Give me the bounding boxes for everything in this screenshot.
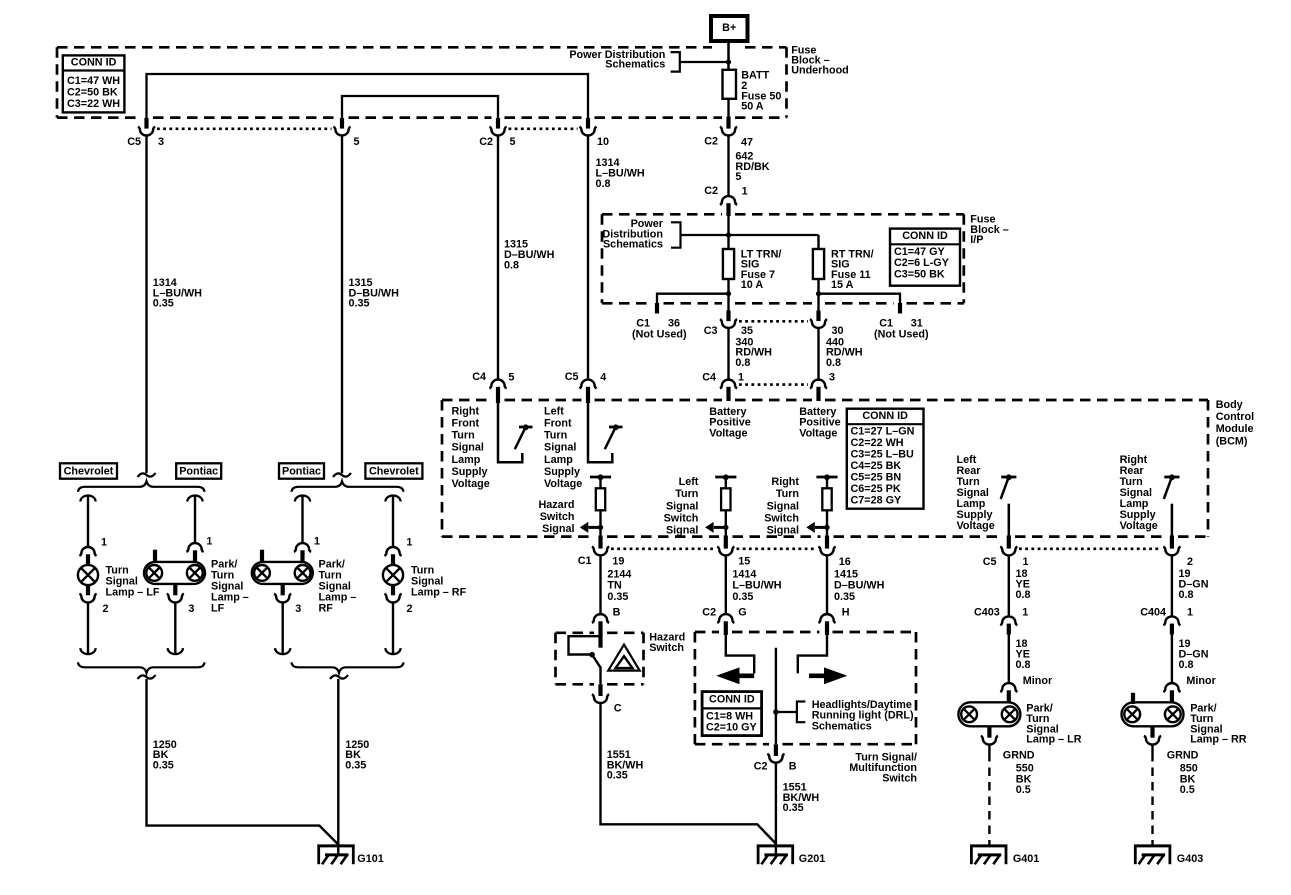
svg-text:C2: C2 xyxy=(704,136,718,148)
ground G201 xyxy=(757,845,794,864)
ground G101 xyxy=(317,845,354,864)
connector C3 pin 35 xyxy=(720,311,737,328)
svg-text:Lamp – RF: Lamp – RF xyxy=(411,586,467,598)
svg-text:C2: C2 xyxy=(702,607,716,619)
svg-text:0.35: 0.35 xyxy=(345,759,366,771)
wire 18 YE 0.8 (upper) xyxy=(1008,555,1010,617)
svg-text:C6=25 PK: C6=25 PK xyxy=(851,483,901,495)
wire 19 D-GN 0.8 (upper) xyxy=(1171,555,1173,617)
dotted connector line C5-1 to 2 xyxy=(1019,547,1162,550)
svg-text:C1=27 L–GN: C1=27 L–GN xyxy=(851,426,915,438)
svg-text:D–BU/WH: D–BU/WH xyxy=(834,580,885,592)
connector C2-B turn signal switch xyxy=(767,744,784,763)
svg-text:0.35: 0.35 xyxy=(607,770,628,782)
svg-text:31: 31 xyxy=(911,317,923,329)
svg-text:30: 30 xyxy=(832,325,844,337)
connector park/turn LR xyxy=(1000,683,1017,702)
svg-text:1: 1 xyxy=(1023,556,1029,568)
connector pin 2 turn lamp LF xyxy=(79,585,96,602)
svg-text:C2: C2 xyxy=(754,760,768,772)
connector pin 5 (underhood) xyxy=(333,118,350,135)
svg-text:LF: LF xyxy=(211,603,225,615)
park/turn signal lamp LR (dual bulb) xyxy=(958,702,1020,726)
svg-text:Signal: Signal xyxy=(767,500,799,512)
svg-text:Lamp – LF: Lamp – LF xyxy=(106,586,160,598)
branch hook park/turn lamp RF xyxy=(295,496,310,543)
svg-text:10 A: 10 A xyxy=(741,279,764,291)
park/turn signal lamp RR (dual bulb) xyxy=(1122,702,1184,726)
svg-text:Body: Body xyxy=(1216,399,1243,411)
connector C5 pin 1 (BCM bottom) xyxy=(1000,536,1017,556)
wire+end hook RF turn xyxy=(385,602,400,654)
svg-text:(Not Used): (Not Used) xyxy=(632,329,687,341)
svg-text:RF: RF xyxy=(319,603,334,615)
svg-text:0.8: 0.8 xyxy=(596,178,611,190)
svg-text:Underhood: Underhood xyxy=(791,64,849,76)
svg-text:CONN ID: CONN ID xyxy=(71,57,117,69)
svg-text:Pontiac: Pontiac xyxy=(179,466,218,478)
brace distribute RF xyxy=(292,481,404,492)
svg-text:Voltage: Voltage xyxy=(452,478,490,490)
wire to not-used C1-31 xyxy=(819,294,901,305)
svg-text:Pontiac: Pontiac xyxy=(282,466,321,478)
svg-text:15 A: 15 A xyxy=(831,279,854,291)
svg-text:1: 1 xyxy=(1022,607,1028,619)
svg-text:1415: 1415 xyxy=(834,568,858,580)
svg-text:C5=25 BN: C5=25 BN xyxy=(851,472,902,484)
svg-text:4: 4 xyxy=(600,372,606,384)
svg-text:16: 16 xyxy=(839,556,851,568)
connector pin 10 (underhood) xyxy=(579,118,596,136)
wire 1551 BK/WH 0.35 (ts) xyxy=(775,763,777,856)
switch left front turn (BCM internal) xyxy=(588,401,623,462)
svg-text:0.8: 0.8 xyxy=(504,259,519,271)
right turn contact hook xyxy=(798,634,827,673)
svg-text:1: 1 xyxy=(406,537,412,549)
wire 440 RD/WH 0.8 xyxy=(817,328,819,381)
turn signal lamp RF (bulb) xyxy=(383,565,403,585)
wire 19 D-GN 0.8 (lower) xyxy=(1171,635,1173,684)
svg-text:Supply: Supply xyxy=(544,466,580,478)
connector pin 1 turn lamp RF xyxy=(384,547,401,565)
svg-text:H: H xyxy=(842,607,850,619)
svg-text:Turn: Turn xyxy=(675,488,698,500)
fuse block IP dashed box xyxy=(602,213,722,216)
dotted connector line C3 row xyxy=(739,320,808,323)
svg-text:C5: C5 xyxy=(565,371,579,383)
svg-text:Front: Front xyxy=(452,418,480,430)
dotted connector line C2-5 to 10 xyxy=(509,128,578,131)
svg-text:C5: C5 xyxy=(983,556,997,568)
svg-text:Control: Control xyxy=(1216,411,1254,423)
branch hook park/turn lamp LF xyxy=(187,496,202,543)
wire 642 RD/BK 5 xyxy=(727,135,729,196)
svg-text:C5: C5 xyxy=(127,136,141,148)
svg-text:35: 35 xyxy=(741,325,753,337)
fuse BATT 2 Fuse 50 50A xyxy=(723,70,737,99)
dotted connector line C1-19 to 15 xyxy=(611,547,715,550)
connector pin 3 park/turn RF xyxy=(274,584,291,603)
svg-text:I/P: I/P xyxy=(970,234,983,246)
break squiggle LF feeder xyxy=(138,473,156,477)
svg-text:1414: 1414 xyxy=(732,568,756,580)
svg-text:0.35: 0.35 xyxy=(153,759,174,771)
connector C hazard switch xyxy=(592,684,609,703)
wire PD ref to B+ line xyxy=(680,61,729,63)
svg-text:2144: 2144 xyxy=(607,568,631,580)
svg-text:Lamp – RR: Lamp – RR xyxy=(1190,734,1247,746)
svg-text:Minor: Minor xyxy=(1023,675,1053,687)
svg-text:Turn: Turn xyxy=(776,488,799,500)
brace gather RF xyxy=(292,662,404,673)
svg-text:C4: C4 xyxy=(702,372,716,384)
wire 1415 D-BU/WH 0.35 xyxy=(826,555,828,614)
svg-text:Module: Module xyxy=(1216,423,1254,435)
svg-text:1: 1 xyxy=(1187,607,1193,619)
wire 1315 D-BU/WH 0.8 (C2-5 to BCM C4-5) xyxy=(497,135,499,380)
wire 850 BK 0.5 xyxy=(1151,744,1153,845)
junction dot RT notused xyxy=(816,291,821,296)
svg-text:10: 10 xyxy=(597,136,609,148)
connector pin 1 turn lamp LF xyxy=(79,547,96,565)
svg-text:Lamp: Lamp xyxy=(452,454,481,466)
wire 1250 BK 0.35 (LF) xyxy=(147,679,339,845)
svg-text:C4: C4 xyxy=(472,371,486,383)
svg-text:G201: G201 xyxy=(799,853,825,865)
wire 2144 TN 0.35 xyxy=(599,555,601,614)
wire RT fuse down xyxy=(817,279,819,312)
svg-text:Signal: Signal xyxy=(542,523,574,535)
connector C4 pin 1 (into BCM) xyxy=(720,380,737,401)
right turn arrow xyxy=(809,667,847,684)
connector pin 16 (BCM bottom) xyxy=(818,536,835,556)
svg-text:C: C xyxy=(614,702,622,714)
svg-text:5: 5 xyxy=(735,171,741,183)
svg-text:Switch: Switch xyxy=(540,511,575,523)
connector pin 1 park/turn LF xyxy=(186,543,203,561)
wire 1414 L-BU/WH 0.35 xyxy=(725,555,727,614)
connector C2 pin 47 (underhood out) xyxy=(720,117,737,136)
svg-text:19: 19 xyxy=(612,556,624,568)
svg-text:C2: C2 xyxy=(479,136,493,148)
hazard switch dashed box xyxy=(556,631,595,634)
svg-text:36: 36 xyxy=(668,317,680,329)
svg-text:C2: C2 xyxy=(704,185,718,197)
connector C404 xyxy=(1163,616,1180,634)
svg-text:3: 3 xyxy=(829,372,835,384)
svg-text:0.8: 0.8 xyxy=(735,357,750,369)
pin C1-36 not used xyxy=(655,303,659,314)
svg-text:CONN ID: CONN ID xyxy=(902,230,948,242)
svg-text:3: 3 xyxy=(188,603,194,615)
svg-text:L–BU/WH: L–BU/WH xyxy=(732,580,781,592)
svg-text:Chevrolet: Chevrolet xyxy=(64,466,114,478)
svg-text:C1=47 GY: C1=47 GY xyxy=(894,246,946,258)
dotted connector line C5-3 to 5 xyxy=(157,128,332,131)
svg-text:Minor: Minor xyxy=(1186,675,1216,687)
svg-text:0.35: 0.35 xyxy=(834,591,855,603)
svg-text:Right: Right xyxy=(771,476,799,488)
svg-text:C3=22 WH: C3=22 WH xyxy=(67,98,120,110)
svg-text:(Not Used): (Not Used) xyxy=(874,329,929,341)
svg-text:1: 1 xyxy=(314,536,320,548)
turn signal lamp LF (bulb) xyxy=(78,565,98,585)
wire+end hook LF park xyxy=(168,602,183,654)
wire PD ref to fuses feed xyxy=(681,234,819,236)
connector GRND RR xyxy=(1144,726,1161,745)
svg-text:0.8: 0.8 xyxy=(1016,589,1031,601)
fuse block underhood dashed box xyxy=(57,46,712,49)
connector C2 pin 1 (into IP fuse block) xyxy=(720,196,737,216)
svg-text:B+: B+ xyxy=(722,22,736,34)
svg-text:Hazard: Hazard xyxy=(538,499,574,511)
CONN ID table (IP): C1=47 GY, C2=6 L-GY, C3=50 BK xyxy=(890,229,960,286)
svg-text:47: 47 xyxy=(741,137,753,149)
svg-text:Schematics: Schematics xyxy=(812,720,872,732)
connector B hazard switch xyxy=(592,614,609,648)
wire fuse to C2-47 xyxy=(727,99,729,118)
svg-text:2: 2 xyxy=(407,603,413,615)
svg-text:5: 5 xyxy=(354,136,360,148)
svg-text:2: 2 xyxy=(1187,556,1193,568)
resistor hazard switch signal (BCM) xyxy=(580,474,611,536)
hazard warning triangle outer xyxy=(608,645,640,671)
connector H turn signal switch xyxy=(818,614,835,635)
svg-text:1: 1 xyxy=(742,186,748,198)
svg-text:Supply: Supply xyxy=(452,466,488,478)
svg-text:C1=47 WH: C1=47 WH xyxy=(67,75,120,87)
junction dot DRL tap xyxy=(773,709,779,715)
break squiggle RF ground wire xyxy=(330,675,348,679)
svg-text:TN: TN xyxy=(607,580,622,592)
wire 550 BK 0.5 xyxy=(988,744,990,845)
resistor left turn signal switch (BCM) xyxy=(705,474,736,536)
label box Chevrolet (LF) xyxy=(60,463,117,478)
svg-text:Switch: Switch xyxy=(882,772,917,784)
hazard switch pivot dot xyxy=(589,652,595,658)
svg-text:Lamp – LR: Lamp – LR xyxy=(1026,734,1081,746)
svg-text:Schematics: Schematics xyxy=(603,239,663,251)
wire 18 YE 0.8 (lower) xyxy=(1008,635,1010,684)
svg-text:Signal: Signal xyxy=(666,500,698,512)
svg-text:1: 1 xyxy=(101,537,107,549)
body control module dashed box xyxy=(442,399,492,402)
wire link C5-3 to pin 10 (inside underhood block) xyxy=(147,74,589,118)
svg-text:Signal: Signal xyxy=(767,525,799,537)
connector pin 15 (BCM bottom) xyxy=(717,536,734,556)
connector C4 pin 5 (BCM top) xyxy=(489,380,506,403)
svg-text:G: G xyxy=(738,607,746,619)
fuse RT TRN/SIG Fuse 11 15A xyxy=(813,249,824,279)
svg-text:Lamp: Lamp xyxy=(544,454,573,466)
park/turn signal lamp LF (dual bulb) xyxy=(144,562,205,584)
svg-text:0.8: 0.8 xyxy=(1179,589,1194,601)
wire LT fuse down xyxy=(727,279,729,312)
svg-text:C2=50 BK: C2=50 BK xyxy=(67,87,118,99)
svg-text:C1: C1 xyxy=(636,317,650,329)
svg-text:C2=6 L-GY: C2=6 L-GY xyxy=(894,257,950,269)
ground G401 xyxy=(970,845,1007,864)
svg-text:15: 15 xyxy=(738,556,750,568)
turn signal switch common wire xyxy=(775,648,777,744)
svg-text:3: 3 xyxy=(158,136,164,148)
svg-text:Voltage: Voltage xyxy=(1120,520,1158,532)
svg-text:C3: C3 xyxy=(704,325,718,337)
connector GRND LR xyxy=(981,726,998,745)
label box Pontiac (LF) xyxy=(176,463,221,478)
brace gather LF xyxy=(78,662,205,673)
svg-text:C2=10 GY: C2=10 GY xyxy=(706,721,758,733)
svg-text:C7=28 GY: C7=28 GY xyxy=(851,495,903,507)
svg-text:C2=22 WH: C2=22 WH xyxy=(851,437,904,449)
dotted connector line C4 row xyxy=(739,383,808,386)
svg-text:1: 1 xyxy=(738,372,744,384)
svg-text:C3=25 L–BU: C3=25 L–BU xyxy=(851,449,915,461)
wire B+ to BATT fuse xyxy=(727,41,730,70)
label box Pontiac (RF) xyxy=(279,463,324,478)
hazard switch contact xyxy=(569,636,600,654)
connector C4 pin 3 (into BCM) xyxy=(810,380,827,401)
pin C1-31 not used xyxy=(898,303,902,314)
svg-text:Signal: Signal xyxy=(452,442,484,454)
wire 1314 L-BU/WH 0.35 (to LF lamps) xyxy=(145,135,147,473)
junction dot LT notused xyxy=(726,291,731,296)
resistor right turn signal switch (BCM) xyxy=(806,474,837,536)
wire DRL tap xyxy=(776,711,797,713)
CONN ID table (underhood): C1=47 WH, C2=50 BK, C3=22 WH xyxy=(63,55,125,112)
svg-text:3: 3 xyxy=(295,603,301,615)
connector C5 pin 4 (BCM top) xyxy=(579,380,596,403)
park/turn signal lamp RF (dual bulb) xyxy=(252,562,313,584)
svg-text:CONN ID: CONN ID xyxy=(709,693,755,705)
label box Chevrolet (RF) xyxy=(365,463,422,478)
svg-text:Voltage: Voltage xyxy=(799,428,837,440)
wire 1315 D-BU/WH 0.35 (to RF lamps) xyxy=(341,135,343,473)
svg-text:0.5: 0.5 xyxy=(1180,784,1195,796)
connector pin 3 park/turn LF xyxy=(167,584,184,603)
break squiggle LF ground wire xyxy=(138,675,156,679)
reference Power Distribution Schematics (IP) xyxy=(602,218,680,251)
svg-text:C403: C403 xyxy=(974,607,1000,619)
connector C3 pin 30 xyxy=(810,311,827,328)
svg-text:G403: G403 xyxy=(1177,853,1203,865)
svg-text:Switch: Switch xyxy=(649,642,684,654)
svg-text:GRND: GRND xyxy=(1167,750,1199,762)
wire hazard arm to C xyxy=(599,667,601,685)
connector pin 2 turn lamp RF xyxy=(384,585,401,602)
svg-text:Voltage: Voltage xyxy=(957,520,995,532)
svg-text:0.35: 0.35 xyxy=(732,591,753,603)
dotted connector line 15 to 16 xyxy=(737,547,817,550)
svg-text:Switch: Switch xyxy=(664,512,699,524)
switch right front turn (BCM internal) xyxy=(498,401,533,462)
svg-text:(BCM): (BCM) xyxy=(1216,435,1248,447)
svg-text:Turn: Turn xyxy=(544,430,567,442)
svg-text:C1: C1 xyxy=(578,555,592,567)
svg-text:Turn: Turn xyxy=(452,430,475,442)
CONN ID table (TS switch): C1=8 WH, C2=10 GY xyxy=(702,692,762,736)
ground G403 xyxy=(1134,845,1171,864)
svg-text:5: 5 xyxy=(508,372,514,384)
left turn contact hook xyxy=(726,634,754,673)
junction dot feed xyxy=(726,232,731,237)
svg-text:0.35: 0.35 xyxy=(349,298,370,310)
connector pin 1 park/turn RF xyxy=(294,543,311,561)
svg-text:0.8: 0.8 xyxy=(1016,659,1031,671)
svg-text:CONN ID: CONN ID xyxy=(862,410,908,422)
CONN ID table (BCM): C1..C7 xyxy=(847,409,924,509)
hazard switch arm xyxy=(592,655,600,668)
wire 1314 L-BU/WH 0.8 (10 to BCM C5-4) xyxy=(587,135,589,380)
wire link pin5 to C2-5 (inside underhood block) xyxy=(342,96,498,118)
svg-text:0.35: 0.35 xyxy=(783,802,804,814)
svg-text:C4=25 BK: C4=25 BK xyxy=(851,460,902,472)
svg-text:G401: G401 xyxy=(1013,853,1039,865)
connector C1 pin 19 (BCM bottom) xyxy=(592,536,609,556)
wire+end hook RF park xyxy=(275,602,290,654)
battery feed B+ terminal xyxy=(711,16,748,41)
hazard warning triangle inner xyxy=(616,656,633,668)
svg-text:C1: C1 xyxy=(879,317,893,329)
break squiggle RF feeder xyxy=(333,473,351,477)
svg-text:5: 5 xyxy=(510,136,516,148)
svg-text:Voltage: Voltage xyxy=(544,478,582,490)
wire C2-1 to LT fuse xyxy=(727,215,729,249)
svg-text:0.8: 0.8 xyxy=(1179,659,1194,671)
dead stub park/turn RR xyxy=(1131,693,1135,704)
svg-text:0.8: 0.8 xyxy=(826,357,841,369)
wire 1250 BK 0.35 (RF) xyxy=(337,679,339,855)
svg-text:Left: Left xyxy=(544,405,564,417)
svg-text:Signal: Signal xyxy=(544,442,576,454)
svg-text:Switch: Switch xyxy=(764,512,799,524)
connector pin 2 (BCM bottom) xyxy=(1163,536,1180,556)
svg-text:50 A: 50 A xyxy=(741,101,764,113)
wire 340 RD/WH 0.8 xyxy=(727,328,729,381)
connector park/turn RR xyxy=(1163,683,1180,702)
svg-text:2: 2 xyxy=(103,603,109,615)
wire feed to RT fuse xyxy=(817,235,819,249)
svg-text:G101: G101 xyxy=(357,853,383,865)
wire+end hook LF turn xyxy=(80,602,95,654)
reference Headlights/DRL schematics bracket xyxy=(797,702,806,723)
svg-text:0.35: 0.35 xyxy=(153,298,174,310)
svg-text:0.35: 0.35 xyxy=(607,591,628,603)
connector C2 pin 5 (underhood) xyxy=(489,118,506,136)
svg-text:Voltage: Voltage xyxy=(709,428,747,440)
branch hook turn signal lamp RF xyxy=(385,496,400,547)
svg-text:Left: Left xyxy=(679,476,699,488)
dead stub park/turn RF xyxy=(260,550,264,563)
svg-text:Right: Right xyxy=(452,405,480,417)
svg-text:C3=50 BK: C3=50 BK xyxy=(894,268,945,280)
svg-text:B: B xyxy=(613,607,621,619)
svg-text:B: B xyxy=(789,760,797,772)
branch hook turn signal lamp LF xyxy=(80,496,95,547)
wire to not-used C1-36 xyxy=(657,294,729,305)
reference Power Distribution Schematics (underhood) xyxy=(569,49,679,72)
svg-text:GRND: GRND xyxy=(1003,750,1035,762)
junction dot B+ / PD ref xyxy=(726,59,731,64)
switch right rear turn (BCM internal) xyxy=(1164,474,1180,536)
connector G turn signal switch xyxy=(717,614,734,635)
brace distribute LF xyxy=(78,481,205,492)
connector C403 xyxy=(1000,616,1017,634)
svg-text:Chevrolet: Chevrolet xyxy=(369,466,419,478)
connector C5 pin 3 (underhood) xyxy=(138,118,155,136)
svg-text:Schematics: Schematics xyxy=(605,59,665,71)
left turn arrow xyxy=(716,667,754,684)
